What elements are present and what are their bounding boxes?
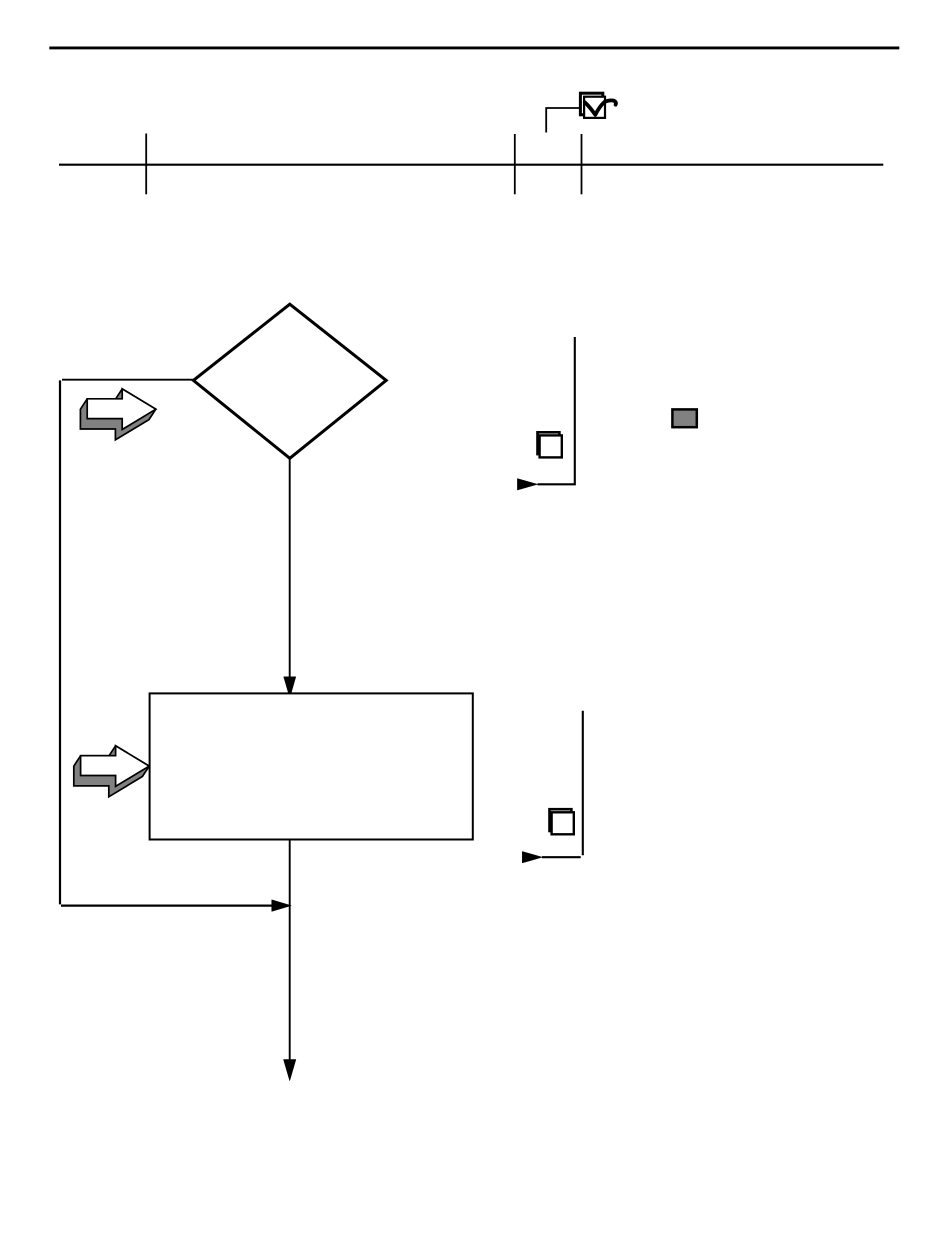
wire diamond bottom to process box <box>289 458 291 678</box>
gray legend box <box>672 409 696 427</box>
3D pointer arrow 2 <box>74 746 149 797</box>
header tick mid <box>514 134 516 194</box>
junction arrowhead <box>272 900 292 912</box>
reference symbol 2 horizontal wire <box>542 856 581 858</box>
reference symbol 2 vertical wire <box>582 711 584 856</box>
checkbox icon <box>580 93 616 118</box>
process box <box>150 693 473 839</box>
top rule <box>49 46 899 49</box>
loop wire left vertical <box>59 380 61 904</box>
reference symbol 1 bracket wire <box>538 337 575 484</box>
header tick left <box>145 134 147 195</box>
reference symbol 2 page icon <box>550 809 574 834</box>
checkbox callout wire <box>546 108 579 133</box>
decision diamond <box>193 304 386 458</box>
reference symbol 1 arrowhead <box>517 479 537 490</box>
3D pointer arrow 1 <box>80 389 155 440</box>
wire process box to bottom arrow <box>289 840 291 1061</box>
wire diamond left to loop <box>62 379 194 381</box>
bottom arrowhead <box>284 1060 296 1081</box>
header baseline <box>59 164 883 166</box>
reference symbol 2 arrowhead <box>522 852 542 863</box>
arrowhead into process box <box>284 677 296 698</box>
loop wire bottom horizontal <box>61 904 273 906</box>
header tick right <box>581 134 583 194</box>
reference symbol 1 page icon <box>538 432 562 457</box>
